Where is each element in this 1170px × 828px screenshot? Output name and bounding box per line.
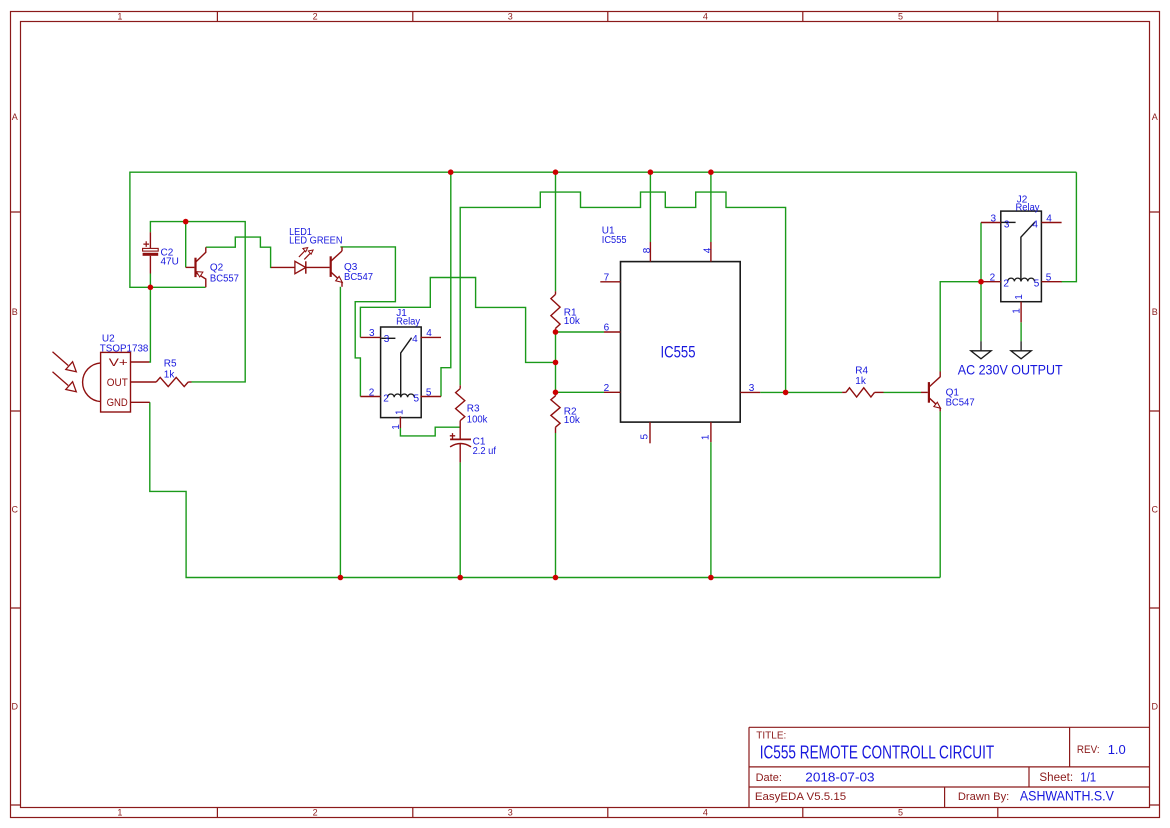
svg-text:2: 2	[383, 393, 389, 404]
relay J2 coil	[1008, 278, 1035, 281]
Q3 emitter lead	[341, 282, 343, 287]
svg-text:4: 4	[412, 334, 418, 345]
svg-text:AC 230V OUTPUT: AC 230V OUTPUT	[958, 361, 1063, 377]
transistor Q3 emitter arrow	[336, 276, 343, 282]
wire R4 right to Q1 base	[884, 391, 922, 393]
U2 pin OUT stub	[131, 381, 157, 383]
svg-text:5: 5	[426, 387, 432, 398]
IR arrow 1 shaft	[53, 352, 69, 366]
svg-text:B: B	[1152, 307, 1158, 317]
svg-text:R4: R4	[855, 366, 868, 377]
junction pin3 / R4 net	[783, 390, 789, 396]
resistor R5 body	[156, 377, 188, 386]
capacitor C1 curved plate	[450, 444, 471, 447]
svg-text:2: 2	[313, 12, 318, 22]
Q2 emitter arrow (PNP, points to base)	[196, 272, 203, 277]
svg-text:3: 3	[369, 328, 375, 339]
wire top bus down to R1 top	[555, 172, 557, 291]
svg-text:1: 1	[394, 409, 405, 415]
relay J2 switch contact	[1002, 221, 1016, 223]
svg-text:5: 5	[1046, 273, 1052, 284]
wire U1 pin1 down to ground bus	[710, 442, 712, 577]
svg-text:IC555: IC555	[661, 342, 696, 361]
junction C2 bottom / VCC left	[148, 285, 154, 291]
J2 pin4 stub	[1041, 222, 1061, 224]
diode LED1 triangle	[295, 261, 306, 273]
svg-text:2: 2	[604, 383, 610, 394]
C1 plus sign	[450, 433, 455, 438]
C2 plus sign	[143, 241, 149, 247]
svg-text:2: 2	[1003, 279, 1009, 290]
relay J2 body	[1001, 211, 1042, 302]
svg-text:A: A	[1152, 112, 1158, 122]
U2 pin V+ stub	[131, 361, 150, 363]
junction ground bus / C1	[457, 575, 463, 581]
U2 pin GND stub	[131, 401, 150, 403]
junction top bus / U1 pin8	[648, 169, 654, 175]
resistor R2 body	[551, 396, 560, 427]
R3 top lead	[459, 385, 461, 388]
R4 right lead	[875, 391, 884, 393]
svg-text:3: 3	[749, 383, 755, 394]
svg-text:Q2: Q2	[210, 262, 224, 273]
svg-text:47U: 47U	[161, 256, 179, 267]
wire R1/R2 junction to U1 pin2	[556, 391, 605, 393]
junction Q2 base column	[183, 219, 189, 225]
svg-text:5: 5	[898, 808, 903, 818]
wire Q2 base column drop	[185, 222, 187, 268]
svg-text:R3: R3	[467, 404, 480, 415]
resistor R1 body	[551, 294, 560, 328]
svg-text:1.0: 1.0	[1108, 742, 1126, 757]
junction top bus / U1 pin4	[708, 169, 714, 175]
resistor R4 body	[846, 388, 875, 397]
wire J2 pin1 down to AC output ground	[1020, 322, 1022, 341]
wire J1 pin3 to R1/R2 midpoint junction	[360, 278, 555, 363]
svg-text:IC555: IC555	[602, 235, 627, 246]
Q2 base lead	[186, 266, 195, 268]
svg-text:A: A	[12, 112, 18, 122]
wire ground bus from U2 GND along bottom	[150, 402, 940, 577]
svg-text:5: 5	[414, 393, 420, 404]
J2 pin2 stub	[981, 281, 1001, 283]
R2 top lead	[555, 392, 557, 396]
wire R3 top up, across with hops, down to U1 pin3 junction	[460, 192, 785, 392]
R3 bottom lead / C1 top lead	[459, 421, 461, 440]
svg-text:4: 4	[702, 247, 713, 253]
svg-text:3: 3	[384, 334, 390, 345]
svg-text:C: C	[12, 505, 19, 515]
wire J2 pin5 up to top bus right end	[1061, 172, 1076, 282]
J1 pin4 stub	[420, 336, 441, 338]
wire junction down to U2 V+ pin	[149, 287, 150, 362]
svg-text:3: 3	[991, 213, 997, 224]
svg-text:Relay: Relay	[396, 317, 420, 328]
svg-text:3: 3	[508, 808, 513, 818]
wire Q1 emitter down to ground bus	[939, 411, 941, 577]
junction R2 top / pin2	[553, 390, 559, 396]
IR receiver U2 body	[101, 352, 131, 412]
svg-text:1/1: 1/1	[1080, 770, 1096, 784]
svg-text:3: 3	[508, 12, 513, 22]
svg-text:ASHWANTH.S.V: ASHWANTH.S.V	[1020, 789, 1114, 804]
wire C2 negative lead to junction	[149, 274, 151, 288]
junction R1-R2 column / J1 pin3 net	[553, 360, 559, 366]
svg-text:6: 6	[604, 323, 610, 334]
wire Q2 collector to LED1 anode with hop	[206, 237, 272, 267]
LED1 emission arrow 1 head	[303, 248, 308, 252]
Q1 base lead	[921, 391, 928, 393]
J2 pin1 stub	[1020, 302, 1022, 323]
svg-text:TITLE:: TITLE:	[756, 731, 786, 742]
transistor Q1 bar	[928, 382, 930, 403]
svg-text:1: 1	[391, 424, 402, 430]
svg-text:2: 2	[313, 808, 318, 818]
svg-text:TSOP1738: TSOP1738	[100, 344, 149, 355]
wire U1 pin3 to R4 left	[760, 391, 842, 393]
capacitor C2 top plate	[143, 248, 159, 251]
svg-text:2: 2	[369, 387, 375, 398]
C1 bottom lead	[459, 444, 461, 463]
U1 pin 2 stub	[604, 391, 621, 393]
diode LED1 cathode bar	[305, 261, 307, 273]
svg-text:4: 4	[703, 808, 708, 818]
svg-text:R5: R5	[164, 359, 177, 370]
svg-text:2: 2	[990, 273, 996, 284]
svg-text:1: 1	[701, 434, 712, 440]
capacitor C1 top plate	[450, 438, 471, 440]
U1 pin 7 stub	[600, 281, 620, 283]
title block frame	[749, 727, 1150, 807]
svg-text:1: 1	[1012, 308, 1023, 314]
relay J1 coil	[388, 394, 415, 397]
svg-text:D: D	[1152, 702, 1159, 712]
wire C1 bottom to ground bus	[459, 462, 461, 577]
capacitor C2 bottom plate	[143, 253, 159, 256]
R1 bottom lead	[555, 328, 557, 332]
ground symbol right	[1011, 341, 1031, 359]
wire R1 bottom to U1 pin6	[556, 331, 605, 333]
wire R2 bottom to ground bus	[555, 433, 557, 578]
LED1 anode lead	[271, 266, 295, 268]
IR arrow 2 head	[66, 382, 77, 392]
svg-text:V+: V+	[109, 357, 128, 369]
svg-text:Sheet:: Sheet:	[1039, 772, 1073, 784]
J1 pin1 stub	[399, 416, 401, 428]
Q1 emitter lead	[939, 408, 941, 412]
svg-text:IC555 REMOTE CONTROLL CIRCUIT: IC555 REMOTE CONTROLL CIRCUIT	[760, 742, 995, 762]
J1 pin5 stub	[420, 396, 441, 398]
svg-text:5: 5	[898, 12, 903, 22]
svg-text:1k: 1k	[164, 369, 176, 380]
relay J2 switch arm	[1021, 222, 1035, 282]
R4 left lead	[842, 391, 846, 393]
junction J2 pin2 / pin3 column	[978, 279, 984, 285]
svg-text:D: D	[12, 702, 19, 712]
IR arrow 2 shaft	[53, 372, 69, 386]
svg-text:BC557: BC557	[210, 274, 239, 285]
svg-text:2018-07-03: 2018-07-03	[805, 769, 874, 784]
U1 pin 3 stub	[740, 391, 760, 393]
wire C2 positive to Q2-base column, across to R5 right lead	[150, 222, 245, 382]
transistor Q3 collector	[331, 251, 342, 261]
J1 pin3 stub	[360, 336, 380, 338]
IC U1 IC555 body	[621, 262, 741, 423]
svg-text:10k: 10k	[564, 415, 581, 426]
wire VCC top bus from J2 pin5 column to left edge, down to C2/Q2 emitter row	[130, 172, 1077, 287]
svg-text:BC547: BC547	[946, 398, 975, 409]
R2 bottom lead	[555, 427, 557, 433]
resistor R3 body	[456, 389, 465, 421]
transistor Q3 bar	[330, 256, 332, 277]
wire J1 pin5 up to top bus	[441, 172, 451, 396]
svg-text:5: 5	[640, 433, 651, 439]
svg-text:4: 4	[1046, 213, 1052, 224]
Q1 collector lead	[939, 372, 941, 378]
svg-text:100k: 100k	[467, 415, 489, 426]
J2 pin5 stub	[1041, 281, 1061, 283]
svg-text:4: 4	[426, 328, 432, 339]
wire top bus down to U1 pin8	[649, 172, 651, 242]
wire Q3 collector to J1 pin2	[340, 247, 395, 397]
transistor Q1 collector	[929, 377, 940, 387]
ground symbol left	[971, 341, 991, 359]
relay J1 switch contact	[381, 337, 395, 339]
junction ground bus / U1 pin1	[708, 575, 714, 581]
U1 pin 4 stub	[710, 242, 712, 262]
svg-text:Date:: Date:	[756, 772, 782, 784]
junction top bus / J1 pin5	[448, 169, 454, 175]
U1 pin 8 stub	[649, 242, 651, 262]
transistor Q3 emitter	[331, 272, 342, 282]
C2 bottom lead	[149, 256, 151, 274]
svg-text:10k: 10k	[564, 316, 581, 327]
transistor Q2 collector	[196, 247, 206, 262]
transistor Q1 emitter arrow	[934, 402, 941, 408]
svg-text:GND: GND	[107, 397, 128, 409]
svg-text:EasyEDA V5.5.15: EasyEDA V5.5.15	[755, 791, 846, 803]
LED1 emission arrow 1	[299, 251, 305, 257]
transistor Q2 emitter	[196, 273, 206, 288]
relay J1 switch arm	[401, 338, 412, 398]
svg-text:2.2 uf: 2.2 uf	[473, 446, 497, 457]
R5 right lead	[188, 381, 191, 383]
svg-text:7: 7	[604, 272, 610, 283]
svg-text:Relay: Relay	[1016, 203, 1040, 214]
J1 pin2 stub	[360, 396, 380, 398]
svg-text:C: C	[1152, 505, 1159, 515]
R1 top lead	[555, 291, 557, 294]
svg-text:LED GREEN: LED GREEN	[289, 236, 342, 247]
svg-text:B: B	[12, 307, 18, 317]
transistor Q1 emitter	[929, 398, 940, 408]
wire J1 pin1 to R3/C1 junction	[400, 427, 460, 436]
svg-text:5: 5	[1034, 279, 1040, 290]
svg-text:8: 8	[642, 247, 653, 253]
Q3 collector lead	[341, 247, 343, 251]
LED1 cathode lead to Q3 base	[306, 266, 330, 268]
transistor Q2 bar	[194, 258, 196, 277]
junction R1 bottom / pin6	[553, 329, 559, 335]
U1 pin 6 stub	[604, 331, 621, 333]
relay J1 body	[381, 327, 422, 418]
svg-text:3: 3	[1004, 219, 1010, 230]
junction ground bus / R2	[553, 575, 559, 581]
junction top bus / R1	[553, 169, 559, 175]
IR receiver U2 lens	[83, 363, 101, 402]
svg-text:4: 4	[703, 12, 708, 22]
junction ground bus / Q3 emitter	[338, 575, 344, 581]
svg-text:1k: 1k	[855, 376, 867, 387]
wire Q1 collector up to J2 pin2 junction	[940, 282, 981, 372]
U1 pin 5 stub	[649, 422, 651, 443]
svg-text:1: 1	[117, 12, 122, 22]
svg-text:BC547: BC547	[344, 272, 373, 283]
svg-text:OUT: OUT	[107, 377, 128, 389]
wire top bus down to U1 pin4	[710, 172, 712, 242]
IR arrow 1 head	[66, 362, 77, 372]
svg-text:1: 1	[117, 808, 122, 818]
wire J2 pin3 down to AC output ground	[980, 223, 982, 342]
svg-text:1: 1	[1014, 294, 1025, 300]
svg-text:4: 4	[1032, 219, 1038, 230]
LED1 emission arrow 2	[304, 253, 310, 259]
wire Q3 emitter down to ground bus	[339, 287, 341, 578]
C2 top lead	[149, 232, 151, 248]
LED1 emission arrow 2 head	[308, 250, 313, 254]
J2 pin3 stub	[981, 222, 1001, 224]
wire R1 bottom to R2 top column	[555, 332, 557, 392]
svg-text:Drawn By:: Drawn By:	[958, 791, 1009, 803]
svg-text:REV:: REV:	[1077, 744, 1100, 756]
U1 pin 1 stub	[710, 422, 712, 442]
